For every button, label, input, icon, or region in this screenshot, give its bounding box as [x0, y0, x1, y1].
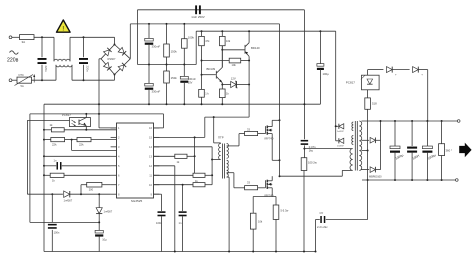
- svg-text:220n: 220n: [44, 66, 48, 73]
- svg-text:5A: 5A: [21, 84, 24, 88]
- svg-text:25V: 25V: [188, 80, 193, 84]
- svg-text:518: 518: [372, 102, 377, 106]
- svg-text:22k: 22k: [79, 143, 84, 147]
- svg-text:2.2n 2kv: 2.2n 2kv: [317, 225, 328, 229]
- svg-text:360 *: 360 *: [446, 149, 453, 153]
- svg-text:RS607: RS607: [108, 57, 116, 61]
- svg-text:330mF: 330mF: [152, 45, 161, 49]
- svg-text:3A: 3A: [22, 40, 26, 44]
- svg-text:BD139: BD139: [207, 67, 216, 71]
- svg-text:ПТР: ПТР: [218, 136, 224, 140]
- svg-text:100k: 100k: [188, 36, 195, 40]
- svg-text:10µ: 10µ: [102, 238, 107, 242]
- svg-text:1n4007: 1n4007: [104, 209, 113, 213]
- svg-text:100n: 100n: [54, 230, 60, 234]
- svg-text:10k: 10k: [232, 63, 237, 67]
- svg-text:1ku: 1ku: [309, 149, 314, 153]
- svg-text:12V: 12V: [231, 76, 236, 80]
- svg-text:1n4937: 1n4937: [337, 146, 345, 148]
- svg-text:PC817: PC817: [346, 81, 356, 85]
- svg-text:СУ: СУ: [320, 211, 324, 215]
- svg-text:MBR60100: MBR60100: [369, 176, 382, 179]
- svg-text:1mF 250V: 1mF 250V: [191, 15, 204, 19]
- svg-text:NTC: NTC: [19, 73, 24, 77]
- svg-text:…: …: [62, 34, 64, 36]
- svg-text:150k: 150k: [171, 49, 178, 53]
- svg-text:PC817: PC817: [62, 113, 71, 117]
- svg-text:1n4007: 1n4007: [64, 199, 73, 203]
- svg-text:100µ: 100µ: [323, 72, 330, 76]
- svg-text:220в: 220в: [7, 58, 19, 64]
- svg-text:220n: 220n: [85, 66, 89, 73]
- svg-text:12: 12: [149, 164, 152, 168]
- svg-text:100n: 100n: [156, 221, 162, 225]
- svg-text:100mF: 100mF: [188, 77, 196, 81]
- svg-text:100 2w: 100 2w: [308, 161, 317, 165]
- svg-text:10: 10: [149, 183, 152, 187]
- svg-text:330mF: 330mF: [152, 90, 161, 94]
- svg-text:10k: 10k: [258, 220, 263, 224]
- svg-text:10k: 10k: [226, 39, 231, 43]
- svg-text:22k: 22k: [52, 143, 57, 147]
- svg-text:150k: 150k: [171, 76, 178, 80]
- svg-text:200: 200: [89, 188, 94, 192]
- svg-text:BD140: BD140: [251, 46, 260, 50]
- svg-text:5-5.3w: 5-5.3w: [281, 209, 289, 213]
- svg-text:14: 14: [149, 145, 152, 149]
- svg-text:13: 13: [149, 155, 152, 159]
- svg-text:SG3525: SG3525: [131, 199, 143, 203]
- svg-text:47k: 47k: [205, 39, 210, 43]
- svg-text:15: 15: [149, 136, 152, 140]
- svg-text:1n4937: 1n4937: [337, 131, 345, 133]
- svg-text:16: 16: [149, 126, 152, 130]
- svg-text:!: !: [62, 26, 64, 33]
